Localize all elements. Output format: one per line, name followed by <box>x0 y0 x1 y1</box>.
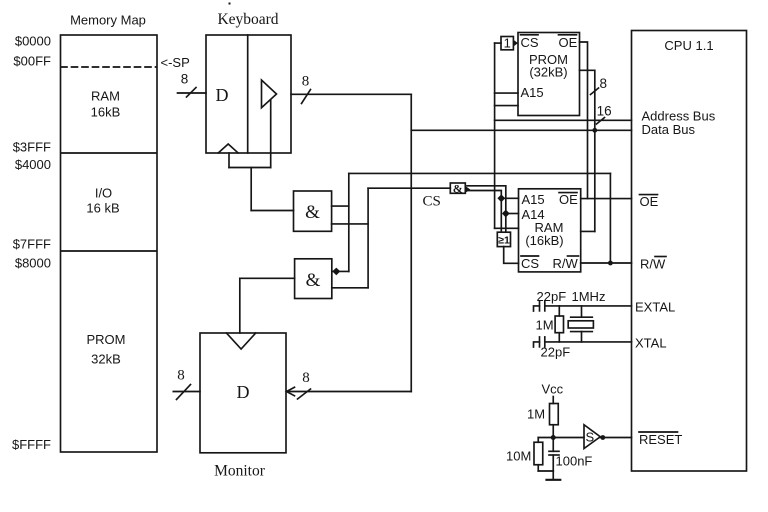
keyboard input bus width 8 <box>181 72 189 87</box>
svg-text:16 kB: 16 kB <box>86 201 119 216</box>
svg-text:D: D <box>237 382 250 402</box>
reset node wire to schmitt <box>538 437 584 439</box>
RAM CS overline <box>521 255 539 257</box>
svg-text:Data Bus: Data Bus <box>642 122 696 137</box>
RAM data pin wire <box>581 230 595 232</box>
data bus junction dot at PROM data <box>592 128 597 133</box>
and gate G1 symbol <box>305 202 320 223</box>
and gate G2 input wire lower <box>332 287 368 289</box>
schmitt trigger S label <box>586 430 595 445</box>
and gate G2 junction dot <box>332 268 340 276</box>
svg-text:Keyboard: Keyboard <box>217 11 278 28</box>
XTAL wire <box>545 341 632 343</box>
keyboard input bus slash <box>187 88 197 98</box>
svg-text:R/W: R/W <box>553 256 579 271</box>
svg-text:(16kB): (16kB) <box>525 233 563 248</box>
PROM data bus slash <box>591 88 599 95</box>
keyboard output bus width 8 <box>302 74 310 90</box>
CS net vertical wire at gates <box>367 188 369 288</box>
svg-text:$3FFF: $3FFF <box>13 140 51 155</box>
svg-text:$FFFF: $FFFF <box>12 437 51 452</box>
capacitor C2 label 22pF <box>541 345 571 360</box>
decode net upper wire <box>467 186 506 232</box>
svg-text:CS: CS <box>423 194 441 210</box>
and gate G1 input wire upper <box>332 205 349 207</box>
crystal X1 top plate <box>571 316 593 318</box>
reset ground wire <box>538 470 553 472</box>
PROM size label <box>529 65 567 80</box>
svg-text:32kB: 32kB <box>91 352 121 367</box>
PROM name label <box>529 52 568 67</box>
keyboard register divider <box>247 35 249 153</box>
keyboard input bus wire <box>178 92 207 94</box>
monitor input arrowhead <box>287 387 295 396</box>
resistor R1 label 1M <box>536 318 554 333</box>
monitor output wire <box>173 391 200 393</box>
inverter U2 box (PROM CS) <box>501 37 513 50</box>
keyboard clock triangle <box>218 144 238 153</box>
memory map address labels <box>12 34 51 453</box>
svg-text:$0000: $0000 <box>15 34 51 49</box>
PROM OE output wire <box>580 42 588 199</box>
monitor D label <box>237 382 250 402</box>
svg-text:OE: OE <box>640 194 659 209</box>
RAM RW to CPU wire <box>581 262 632 264</box>
junction dot A15 <box>497 194 505 202</box>
svg-text:1M: 1M <box>536 318 554 333</box>
svg-text:I/O: I/O <box>95 186 112 201</box>
svg-text:A15: A15 <box>522 192 545 207</box>
resistor R2 label 1M <box>527 407 545 422</box>
CPU data bus pin label <box>642 122 696 137</box>
A15 line long vertical wire <box>494 43 496 228</box>
resistor R1 bottom wire <box>558 333 560 342</box>
svg-text:CS: CS <box>521 35 539 50</box>
capacitor C2 22pF plates <box>540 337 545 347</box>
inverter U2 output arrow <box>513 40 518 47</box>
RAM size label <box>525 233 563 248</box>
RAM A15 pin label <box>522 192 545 207</box>
keyboard clock bracket horizontal wire <box>229 167 271 169</box>
svg-text:10M: 10M <box>506 449 531 464</box>
decoder and gate U3 output arrow <box>465 186 470 193</box>
capacitor C3 100nF top wire <box>552 438 554 452</box>
memory map title <box>70 13 146 28</box>
SP pointer label <box>161 55 190 70</box>
svg-text:8: 8 <box>177 368 185 384</box>
and gate G1 input wire lower <box>332 223 369 225</box>
svg-text:CPU 1.1: CPU 1.1 <box>664 38 713 53</box>
CS net horizontal wire <box>368 187 450 189</box>
keyboard D label <box>216 85 229 105</box>
memory map region labels <box>86 89 125 367</box>
RW net horizontal wire <box>349 172 611 174</box>
monitor output bus slash <box>177 385 191 400</box>
keyboard data vertical wire to monitor <box>410 94 412 391</box>
ground symbol <box>547 479 561 481</box>
and gate G1 (keyboard strobe) box <box>294 191 332 231</box>
PROM lower pin wire <box>495 105 518 107</box>
EXTAL wire <box>545 305 632 307</box>
resistor R3 10M body <box>534 442 543 465</box>
memory map divider $3FFF/$4000 <box>61 152 157 154</box>
memory map SP dashed line <box>61 66 156 68</box>
CPU name label <box>664 38 713 53</box>
PROM A15 pin wire <box>495 92 518 94</box>
capacitor C3 label 100nF <box>556 454 593 469</box>
svg-text:$4000: $4000 <box>15 157 51 172</box>
RAM RW pin label <box>553 256 579 271</box>
svg-text:(32kB): (32kB) <box>529 65 567 80</box>
svg-text:Memory Map: Memory Map <box>70 13 146 28</box>
CPU U1 box <box>632 31 747 472</box>
svg-text:EXTAL: EXTAL <box>635 300 675 315</box>
svg-text:&: & <box>453 181 463 195</box>
svg-text:&: & <box>306 270 321 291</box>
CPU OE pin label <box>640 194 659 209</box>
RAM RW overline <box>568 255 579 257</box>
RAM U6 box <box>519 189 581 272</box>
PROM OE overline <box>559 34 577 36</box>
address bus slash <box>597 118 605 125</box>
monitor output bus width 8 <box>177 368 185 384</box>
svg-text:8: 8 <box>302 74 310 90</box>
PROM A15 pin label <box>521 85 544 100</box>
svg-text:S: S <box>586 430 595 445</box>
monitor clock drop wire <box>239 278 241 333</box>
and gate G2 (monitor strobe) box <box>295 259 332 299</box>
svg-text:16: 16 <box>597 104 612 119</box>
memory map box <box>61 35 158 452</box>
resistor R3 label 10M <box>506 449 531 464</box>
RAM A14 pin wire <box>506 213 519 215</box>
monitor register box <box>200 333 286 453</box>
svg-text:$7FFF: $7FFF <box>13 237 51 252</box>
RAM OE pin label <box>559 192 578 207</box>
reset ground drop wire <box>552 471 554 480</box>
junction dot A14 <box>502 210 510 218</box>
keyboard clock bracket left wire <box>228 153 230 168</box>
RAM CS pin label <box>521 256 539 271</box>
svg-text:Vcc: Vcc <box>542 382 564 397</box>
RW net vertical wire at gates <box>348 173 350 271</box>
crystal X1 body <box>568 321 593 328</box>
keyboard output bus wire <box>291 93 411 95</box>
or gate U4 box <box>497 232 510 246</box>
monitor label <box>214 463 266 480</box>
CPU RW overline <box>655 256 666 258</box>
RAM OE to CPU wire <box>581 198 632 200</box>
RAM lower address pin wire <box>495 227 519 229</box>
inverter U2 label 1 <box>504 36 511 51</box>
svg-text:OE: OE <box>559 192 578 207</box>
svg-text:$8000: $8000 <box>15 256 51 271</box>
schmitt trigger U7 triangle <box>584 425 600 449</box>
address bus wire <box>495 119 632 121</box>
PROM CS overline <box>521 34 539 36</box>
PROM CS pin label <box>521 35 539 50</box>
Vcc label <box>542 382 564 397</box>
monitor input bus width 8 <box>302 370 310 386</box>
Vcc wire <box>552 397 554 404</box>
svg-text:≥1: ≥1 <box>498 235 510 247</box>
RW net drop to CPU wire <box>609 173 611 263</box>
CPU OE overline <box>640 194 658 196</box>
and gate G2 symbol <box>306 270 321 291</box>
RW net junction dot <box>608 261 613 266</box>
resistor R3 bottom wire <box>537 465 539 471</box>
resistor R1 top wire <box>558 306 560 316</box>
svg-text:100nF: 100nF <box>556 454 593 469</box>
PROM data output wire <box>580 70 595 231</box>
resistor R3 10M top wire <box>537 438 539 443</box>
RAM OE overline <box>559 192 577 194</box>
svg-text:$00FF: $00FF <box>13 54 51 69</box>
keyboard buffer enable wire <box>270 101 272 168</box>
address bus width 16 <box>597 104 612 119</box>
or gate U4 output wire <box>504 247 519 264</box>
crystal X1 bottom wire <box>581 332 583 342</box>
svg-text:RAM: RAM <box>91 89 120 104</box>
svg-text:8: 8 <box>599 76 607 91</box>
svg-text:A15: A15 <box>521 85 544 100</box>
PROM U5 box <box>518 33 580 116</box>
reset wire to CPU <box>600 437 631 439</box>
svg-text:RESET: RESET <box>639 432 682 447</box>
CPU RESET overline <box>639 431 678 433</box>
CPU XTAL pin label <box>635 336 667 351</box>
schmitt output junction dot <box>600 435 605 440</box>
svg-text:PROM: PROM <box>87 332 126 347</box>
inverter U2 input wire <box>495 42 501 44</box>
capacitor C3 plates <box>549 451 559 455</box>
and gate G1 output wire to keyboard <box>251 210 293 212</box>
keyboard clock drop wire <box>250 168 252 211</box>
resistor R2 bottom wire <box>552 425 554 438</box>
svg-text:CS: CS <box>521 256 539 271</box>
svg-text:8: 8 <box>181 72 189 87</box>
PROM data bus width 8 <box>599 76 607 91</box>
capacitor C1 label 22pF <box>537 289 567 304</box>
RAM A15 pin wire <box>501 197 518 199</box>
svg-text:D: D <box>216 85 229 105</box>
capacitor C2 lead stub <box>534 342 540 347</box>
RAM A14 pin label <box>522 207 545 222</box>
svg-text:1MHz: 1MHz <box>572 289 606 304</box>
keyboard register U-KBD box <box>206 35 291 153</box>
crystal X1 label 1MHz <box>572 289 606 304</box>
or gate U4 symbol <box>498 235 510 247</box>
capacitor C1 22pF plates <box>540 301 545 311</box>
keyboard output bus slash <box>302 90 311 104</box>
svg-text:Monitor: Monitor <box>214 463 266 480</box>
svg-text:8: 8 <box>302 370 310 386</box>
monitor input wire <box>287 391 411 393</box>
svg-text:16kB: 16kB <box>91 105 121 120</box>
monitor input bus slash <box>298 389 311 399</box>
decoder and gate U3 box <box>450 183 465 193</box>
svg-text:22pF: 22pF <box>541 345 571 360</box>
svg-text:<-SP: <-SP <box>161 55 190 70</box>
decode net lower wire <box>468 191 501 233</box>
CS label <box>423 194 441 210</box>
svg-text:XTAL: XTAL <box>635 336 667 351</box>
capacitor C3 bottom wire <box>552 455 554 471</box>
CPU EXTAL pin label <box>635 300 675 315</box>
CPU address bus pin label <box>642 109 716 124</box>
capacitor C1 lead stub <box>534 306 540 311</box>
data bus wire <box>411 129 631 131</box>
resistor R1 1M body <box>555 316 563 333</box>
svg-text:22pF: 22pF <box>537 289 567 304</box>
crystal X1 top wire <box>581 306 583 317</box>
svg-text:R/W: R/W <box>640 257 666 272</box>
svg-text:&: & <box>305 202 320 223</box>
and gate G2 input wire upper <box>332 270 349 272</box>
svg-text:1M: 1M <box>527 407 545 422</box>
reset node junction dot <box>551 435 556 440</box>
svg-text:OE: OE <box>559 35 578 50</box>
decoder and gate U3 symbol <box>453 181 463 195</box>
crystal X1 bottom plate <box>571 331 593 333</box>
memory map divider $7FFF/$8000 <box>61 250 157 252</box>
stray dot above keyboard <box>229 3 231 5</box>
CPU RW pin label <box>640 257 666 272</box>
resistor R2 1M body <box>550 404 559 425</box>
svg-text:1: 1 <box>504 36 511 51</box>
CPU RESET pin label <box>639 432 682 447</box>
monitor clock triangle <box>227 333 256 349</box>
PROM OE pin label <box>559 35 578 50</box>
keyboard label <box>217 11 278 28</box>
and gate G2 output wire to monitor <box>240 277 295 279</box>
RAM name label <box>535 220 564 235</box>
keyboard output buffer triangle <box>262 80 277 108</box>
